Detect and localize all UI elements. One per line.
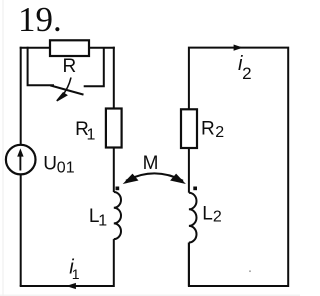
wire: L1 to bottom: [113, 239, 115, 287]
switch blade: [50, 85, 83, 94]
current arrow i2: [234, 45, 243, 51]
resistor R1: [106, 109, 122, 148]
voltage source arrow: [17, 148, 23, 170]
svg-text:2: 2: [215, 124, 224, 141]
inductor L2: [189, 193, 197, 243]
svg-text:01: 01: [57, 160, 75, 177]
svg-text:2: 2: [213, 209, 222, 226]
voltage source U01 circle: [6, 145, 36, 175]
wire: left rail lower (source to bottom): [20, 174, 22, 286]
wire: R1 to L1: [113, 148, 115, 193]
wire: switch branch right + rise: [84, 48, 104, 86]
scan edge artifact left: [3, 0, 4, 296]
wire: switch branch left drop: [28, 47, 54, 86]
svg-text:2: 2: [242, 64, 251, 83]
wire: right rail of left loop down to R1: [113, 47, 115, 109]
svg-text:1: 1: [72, 266, 80, 282]
coupling dot of L2: [193, 187, 197, 191]
wire: left loop top (right of R): [89, 47, 115, 49]
wire: R2 to L2: [188, 148, 190, 193]
coupling dot of L1: [116, 187, 120, 191]
wire: left rail upper (top wire to source): [20, 47, 22, 146]
svg-text:1: 1: [98, 213, 107, 230]
scan edge artifact bottom: [0, 295, 300, 296]
switch actuation arrow: [57, 78, 71, 101]
svg-text:R: R: [201, 119, 215, 140]
svg-text:L: L: [202, 204, 213, 225]
wire: left loop top (left of R): [20, 47, 50, 49]
resistor R2: [181, 109, 197, 148]
wire: L2 to bottom: [188, 243, 190, 287]
mutual inductance arrow M: [123, 173, 186, 184]
svg-text:1: 1: [87, 127, 96, 144]
scan speck: [249, 270, 251, 272]
wire: left loop bottom: [20, 285, 114, 287]
svg-text:R: R: [63, 56, 77, 77]
svg-text:19.: 19.: [18, 0, 62, 39]
resistor R: [50, 40, 89, 56]
svg-text:U: U: [43, 153, 57, 174]
inductor L1: [114, 192, 121, 239]
current arrow i1: [66, 283, 76, 289]
wire: right loop frame: [189, 48, 288, 286]
svg-text:M: M: [143, 153, 159, 174]
